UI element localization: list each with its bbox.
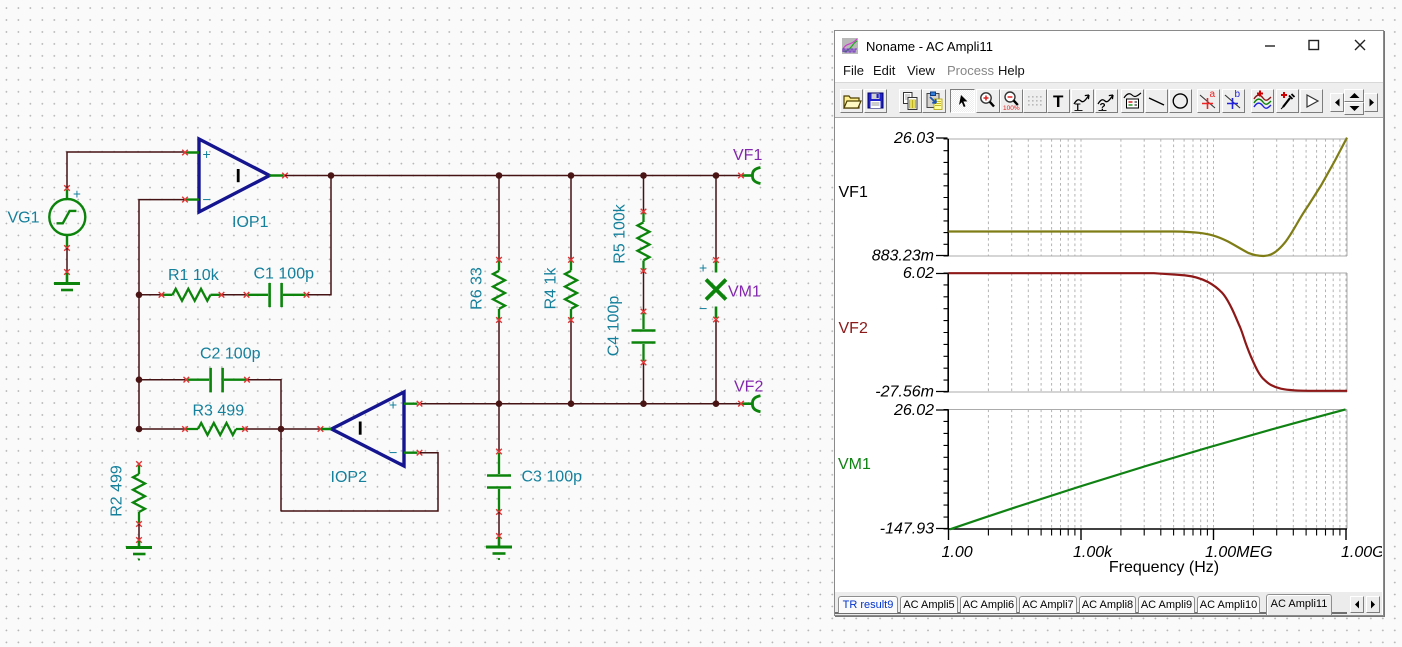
svg-text:R6 33: R6 33 xyxy=(469,267,486,310)
capacitor C4 100p xyxy=(632,313,656,361)
voltmeter VM1 xyxy=(706,261,726,318)
svg-text:1.00k: 1.00k xyxy=(1073,544,1113,561)
axis value labels xyxy=(872,130,934,538)
toolbar paste button xyxy=(922,89,946,113)
toolbar open button xyxy=(840,89,863,113)
resistor R3 499 xyxy=(186,423,245,435)
svg-text:26.02: 26.02 xyxy=(893,402,934,419)
schematic canvas xyxy=(0,0,836,647)
svg-text:C2 100p: C2 100p xyxy=(200,346,261,363)
toolbar spinner up button xyxy=(1344,89,1364,102)
curve VF1 xyxy=(949,138,1348,256)
toolbar marker button xyxy=(1300,89,1323,113)
svg-text:IOP2: IOP2 xyxy=(331,469,368,486)
toolbar cursor button (pressed) xyxy=(950,89,975,113)
tab bar xyxy=(834,592,1382,616)
wire VG1 top to IOP1 + input xyxy=(67,152,184,188)
toolbar grid button (disabled) xyxy=(1023,89,1047,113)
wire node column down left side xyxy=(138,295,140,429)
wire VG1 bottom to ground xyxy=(66,248,68,272)
toolbar xyxy=(834,82,1384,118)
svg-text:VF1: VF1 xyxy=(733,147,762,164)
toolbar add-curve button xyxy=(1251,89,1274,113)
svg-text:100%: 100% xyxy=(1003,105,1020,112)
tab nav-right button xyxy=(1366,596,1380,613)
wire IOP1 - input to node column xyxy=(139,200,184,295)
toolbar annotate-curve button xyxy=(1071,89,1094,113)
svg-text:1.00G: 1.00G xyxy=(1341,544,1382,561)
svg-text:IOP1: IOP1 xyxy=(232,214,269,231)
grid VF1 xyxy=(988,139,1346,256)
menu bar xyxy=(834,62,1384,82)
svg-text:a: a xyxy=(1210,90,1216,100)
IOP2 feedback wire xyxy=(281,453,438,511)
svg-text:1.00: 1.00 xyxy=(942,544,973,561)
resistor R6 33 xyxy=(493,260,505,320)
curve VM1 xyxy=(950,409,1346,529)
resistor R5 100k xyxy=(638,212,650,272)
close button xyxy=(1354,39,1366,51)
wire R4 branch xyxy=(570,176,572,404)
capacitor C3 100p xyxy=(487,453,511,511)
capacitor C2 100p xyxy=(188,368,247,393)
svg-text:+: + xyxy=(203,146,211,162)
toolbar spinner down button xyxy=(1344,102,1364,115)
toolbar cursor-b button xyxy=(1222,89,1245,113)
window title xyxy=(866,39,993,54)
toolbar save button xyxy=(864,89,887,113)
toolbar nav-right button xyxy=(1364,93,1378,112)
toolbar text button xyxy=(1047,89,1070,113)
svg-text:T: T xyxy=(1053,92,1064,111)
diagram tab AC Ampli5 xyxy=(900,596,958,613)
toolbar pick button xyxy=(1276,89,1299,113)
svg-text:+: + xyxy=(389,397,397,413)
svg-text:C1 100p: C1 100p xyxy=(254,266,315,283)
diagram tab AC Ampli6 xyxy=(960,596,1017,613)
plot client area xyxy=(834,118,1382,592)
wire VM1 branch xyxy=(715,176,717,404)
toolbar zoom-100% button xyxy=(1000,89,1023,113)
svg-text:−: − xyxy=(389,446,397,462)
svg-text:VF2: VF2 xyxy=(734,379,763,396)
svg-text:26.03: 26.03 xyxy=(893,130,934,147)
svg-text:b: b xyxy=(1234,90,1240,100)
wire C3 branch xyxy=(498,404,500,451)
toolbar line button xyxy=(1145,89,1168,113)
wire R6 branch xyxy=(498,176,500,404)
y-axis VM1 xyxy=(947,410,949,530)
curve VF2 xyxy=(949,273,1348,391)
toolbar copy button xyxy=(899,89,922,113)
toolbar zoom-in button xyxy=(976,89,1000,113)
svg-text:R2 499: R2 499 xyxy=(109,465,126,517)
output terminal VF2 xyxy=(742,396,761,412)
window icon xyxy=(842,38,858,54)
toolbar cursor-a button xyxy=(1197,89,1220,113)
capacitor C1 100p xyxy=(248,283,305,307)
diagram tab AC Ampli11 xyxy=(1266,594,1332,615)
svg-text:6.02: 6.02 xyxy=(903,265,934,282)
diagram tab AC Ampli8 xyxy=(1079,596,1136,613)
tab nav-left button xyxy=(1350,596,1364,613)
wire VF2 row xyxy=(421,403,740,405)
resistor R1 10k xyxy=(162,289,222,301)
svg-text:R1 10k: R1 10k xyxy=(168,267,220,284)
svg-text:VG1: VG1 xyxy=(8,210,40,227)
svg-text:883.23m: 883.23m xyxy=(872,248,934,265)
svg-text:VM1: VM1 xyxy=(838,456,871,473)
svg-text:+: + xyxy=(73,187,81,202)
svg-text:R4 1k: R4 1k xyxy=(543,267,560,310)
diagram tab AC Ampli7 xyxy=(1019,596,1077,613)
node junctions VF1 row xyxy=(328,172,335,179)
op-amp U IOP2 xyxy=(332,392,405,466)
ground below C3 xyxy=(486,537,512,554)
svg-text:-147.93: -147.93 xyxy=(880,521,934,538)
svg-text:VM1: VM1 xyxy=(728,284,761,301)
svg-text:C4 100p: C4 100p xyxy=(606,296,623,357)
node junctions left column xyxy=(136,292,143,299)
ground below R2 xyxy=(126,541,152,554)
svg-text:+: + xyxy=(699,260,707,276)
wire R3 row xyxy=(139,428,320,430)
svg-text:R3 499: R3 499 xyxy=(193,403,245,420)
wire R5/C4 branch xyxy=(643,176,645,404)
toolbar query-curve button xyxy=(1095,89,1118,113)
toolbar circle button xyxy=(1169,89,1192,113)
diagram window xyxy=(834,30,1384,616)
wire R1 row xyxy=(139,176,331,295)
y-axis VF1 xyxy=(947,139,949,256)
maximize button xyxy=(1308,39,1320,51)
svg-text:R5 100k: R5 100k xyxy=(612,203,629,264)
node junctions VF2 row xyxy=(496,400,503,407)
svg-text:Frequency (Hz): Frequency (Hz) xyxy=(1109,559,1219,576)
ground below VG1 xyxy=(54,273,80,290)
op-amp U IOP1 xyxy=(199,139,270,212)
svg-text:VF1: VF1 xyxy=(839,184,868,201)
output terminal VF1 xyxy=(742,168,761,184)
svg-text:C3 100p: C3 100p xyxy=(522,469,583,486)
wire VF1 row (IOP1 output bus) xyxy=(285,175,740,177)
voltage generator VG1 xyxy=(49,190,85,248)
resistor R4 1k xyxy=(565,260,577,320)
minimize button xyxy=(1264,39,1276,51)
wire C3 to ground xyxy=(498,512,500,535)
resistor R2 499 xyxy=(133,465,145,523)
y-axis VF2 xyxy=(947,273,949,392)
wire C2 row xyxy=(139,380,281,512)
svg-text:−: − xyxy=(699,302,707,318)
diagram tab AC Ampli10 xyxy=(1197,596,1260,613)
diagram tab TR result9 xyxy=(838,596,898,613)
x-axis xyxy=(949,528,1348,530)
svg-text:VF2: VF2 xyxy=(839,320,868,337)
grid VM1 xyxy=(988,410,1346,530)
wire R2 to ground xyxy=(138,524,140,539)
grid VF2 xyxy=(988,273,1346,392)
toolbar legend button xyxy=(1121,89,1144,113)
diagram tab AC Ampli9 xyxy=(1138,596,1195,613)
svg-text:-27.56m: -27.56m xyxy=(875,384,934,401)
svg-text:−: − xyxy=(203,193,211,209)
toolbar nav-left button xyxy=(1330,93,1344,112)
